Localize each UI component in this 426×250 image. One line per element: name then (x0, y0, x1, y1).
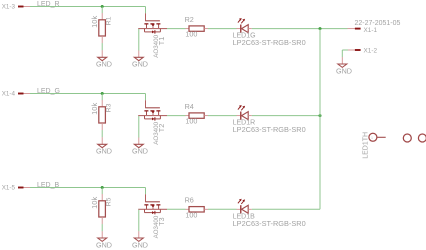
svg-text:GND: GND (96, 240, 112, 249)
connector pin X1-4 (2, 91, 30, 98)
wire T2 drain to R4 (167, 115, 186, 117)
ground under T1 (132, 51, 148, 69)
svg-text:GND: GND (96, 60, 112, 69)
wire LED1G to common anode trunk (252, 28, 348, 30)
wire net LED_B horizontal (30, 187, 146, 189)
svg-text:LED1TH: LED1TH (362, 132, 369, 159)
LED1TH label (362, 132, 369, 159)
svg-text:GND: GND (132, 60, 148, 69)
wire net LED_R horizontal (30, 6, 146, 8)
junction on common anode trunk row 1 (319, 27, 322, 30)
junction on common anode trunk row 2 (319, 114, 322, 117)
svg-text:GND: GND (132, 240, 148, 249)
wire T2 source to GND (138, 116, 140, 138)
wire R1 to GND (101, 43, 103, 50)
wire T1 drain to R2 (167, 28, 186, 30)
svg-text:100: 100 (185, 30, 197, 39)
net label LED_R (37, 1, 60, 8)
svg-text:T2: T2 (157, 124, 166, 133)
wire R6 to LED1B (208, 208, 237, 210)
resistor R4 100 (185, 102, 208, 126)
svg-text:R5: R5 (106, 197, 113, 206)
svg-text:R3: R3 (106, 103, 113, 112)
svg-text:R2: R2 (185, 15, 194, 24)
pad LED1TH pin 1 (369, 133, 386, 141)
svg-text:10k: 10k (90, 16, 99, 28)
wire R4 to LED1R (208, 115, 237, 117)
ground under T2 (132, 138, 148, 156)
wire R2 to LED1G (208, 28, 237, 30)
svg-text:X1-5: X1-5 (2, 185, 16, 192)
connector part number 22-27-2051-05 (355, 20, 401, 27)
svg-text:LP2C63-ST-RGB-SR0: LP2C63-ST-RGB-SR0 (233, 125, 306, 134)
svg-text:GND: GND (132, 147, 148, 156)
wire net LED_G horizontal (30, 93, 146, 95)
LED LED1B LP2C63-ST-RGB-SR0 (233, 199, 306, 228)
resistor R5 10k (90, 188, 112, 225)
ground under R5 (96, 231, 112, 249)
connector pin X1-5 (2, 185, 30, 192)
svg-text:R6: R6 (185, 196, 194, 205)
net label LED_B (37, 182, 60, 189)
ground under R3 (96, 137, 112, 156)
svg-text:X1-1: X1-1 (364, 27, 378, 34)
svg-text:R1: R1 (106, 16, 113, 25)
svg-text:T3: T3 (157, 217, 166, 226)
svg-text:LP2C63-ST-RGB-SR0: LP2C63-ST-RGB-SR0 (233, 38, 306, 47)
transistor T2 AO3400 n-channel mosfet (138, 94, 167, 145)
wire common anode vertical trunk (319, 29, 321, 210)
wire LED1B to common anode trunk (252, 208, 320, 210)
resistor R3 10k (90, 94, 112, 131)
LED LED1R LP2C63-ST-RGB-SR0 (233, 105, 306, 134)
junction on net LED_R (101, 5, 104, 8)
resistor R6 100 (185, 196, 208, 220)
wire LED1R to common anode trunk (252, 115, 320, 117)
resistor R2 100 (185, 15, 208, 39)
transistor T3 AO3400 n-channel mosfet (138, 188, 167, 239)
svg-text:X1-4: X1-4 (2, 91, 16, 98)
svg-text:X1-3: X1-3 (2, 4, 16, 11)
ground under R1 (96, 50, 112, 68)
svg-text:100: 100 (185, 210, 197, 219)
wire R5 to GND (101, 224, 103, 231)
ground at X1-2 (336, 57, 352, 75)
pad LED1TH pin 3 (418, 134, 426, 142)
svg-text:X1-2: X1-2 (364, 47, 378, 54)
junction on net LED_G (101, 92, 104, 95)
svg-text:LP2C63-ST-RGB-SR0: LP2C63-ST-RGB-SR0 (233, 219, 306, 228)
svg-text:22-27-2051-05: 22-27-2051-05 (355, 20, 401, 27)
net label LED_G (37, 88, 60, 95)
resistor R1 10k (90, 7, 112, 44)
svg-text:GND: GND (96, 147, 112, 156)
LED LED1G LP2C63-ST-RGB-SR0 (233, 18, 306, 47)
svg-text:T1: T1 (157, 37, 166, 46)
svg-text:10k: 10k (90, 103, 99, 115)
junction on net LED_B (101, 186, 104, 189)
pad LED1TH pin 2 (403, 134, 411, 142)
svg-text:R4: R4 (185, 102, 194, 111)
wire T1 source to GND (138, 29, 140, 51)
ground under T3 (132, 231, 148, 249)
connector pin X1-2 (348, 47, 378, 54)
svg-text:10k: 10k (90, 197, 99, 209)
wire X1-2 to GND (342, 50, 348, 57)
connector pin X1-3 (2, 4, 30, 11)
wire T3 source to GND (138, 210, 140, 232)
wire T3 drain to R6 (167, 208, 186, 210)
svg-text:GND: GND (336, 66, 352, 75)
wire R3 to GND (101, 130, 103, 137)
svg-text:100: 100 (185, 117, 197, 126)
transistor T1 AO3400 n-channel mosfet (138, 7, 167, 58)
svg-text:1: 1 (371, 135, 374, 140)
connector pin X1-1 (348, 27, 378, 34)
